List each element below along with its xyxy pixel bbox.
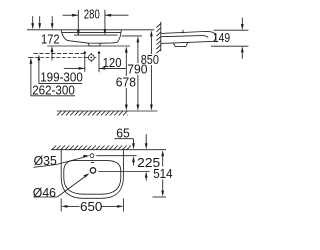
- wire tap centerline extension: [96, 155, 136, 157]
- wire rim top line: [27, 29, 154, 31]
- wall hatching: [52, 146, 131, 150]
- svg-text:514: 514: [153, 167, 172, 181]
- dimension 172 arrows: [51, 16, 54, 60]
- label Ø35 leader: [34, 156, 88, 167]
- dimension 514: [153, 150, 167, 197]
- wire fixing hole extension left: [84, 55, 86, 72]
- basin top-view outer outline: [61, 150, 123, 199]
- node supply hole circle: [88, 55, 94, 61]
- side drain tab: [173, 43, 187, 47]
- dimension 650: [61, 199, 123, 212]
- wire inner-rim right extension: [122, 35, 142, 37]
- wall line vertical: [160, 22, 162, 52]
- node fixing-hole centerline (dash): [34, 52, 85, 54]
- svg-text:Ø46: Ø46: [33, 186, 56, 200]
- wire drain centerline extension: [98, 171, 150, 173]
- basin inner rim line: [62, 31, 121, 33]
- node tap hole (top view): [90, 154, 94, 158]
- svg-text:850: 850: [141, 53, 159, 67]
- svg-text:650: 650: [80, 200, 102, 214]
- node fixing hole marker right (diamond): [98, 51, 101, 55]
- dimension 850: [150, 30, 153, 111]
- ground floor hatching: [57, 111, 128, 115]
- dimension 149: [211, 18, 249, 59]
- svg-text:262-300: 262-300: [32, 83, 75, 97]
- basin side inner rim line: [161, 36, 208, 38]
- wall line horizontal: [51, 149, 166, 151]
- basin front outline: [61, 30, 121, 43]
- label 262-300 leader: [31, 95, 76, 97]
- node center mark dash: [91, 161, 94, 163]
- wall hatching: [156, 24, 160, 54]
- svg-text:Ø35: Ø35: [34, 154, 57, 168]
- basin drain tab: [88, 43, 100, 46]
- node drain hole ring: [90, 168, 95, 173]
- svg-text:172: 172: [41, 32, 60, 46]
- dimension 280: [63, 10, 129, 37]
- dimension 678: [125, 46, 128, 110]
- dimension 120: [64, 67, 126, 70]
- ground floor line: [57, 110, 158, 112]
- label 199-300 leader: [39, 83, 83, 85]
- basin top-view inner bowl: [64, 161, 121, 195]
- node tap hole tick: [182, 30, 184, 34]
- wire fixing hole extension right: [98, 55, 100, 72]
- node fixing hole marker left (diamond): [83, 51, 86, 55]
- svg-text:65: 65: [116, 127, 130, 141]
- dimension 790: [137, 36, 140, 111]
- dimension 262-300 top arrow: [30, 16, 35, 96]
- dimension 225: [145, 134, 148, 180]
- dimension 199-300 top arrow: [38, 16, 42, 83]
- dimension 65: [114, 139, 135, 166]
- svg-text:120: 120: [103, 56, 122, 70]
- basin side profile: [161, 31, 215, 43]
- node supply centerline (dash): [28, 57, 33, 59]
- svg-text:280: 280: [84, 7, 100, 21]
- label Ø46 leader: [34, 196, 58, 198]
- svg-text:678: 678: [116, 76, 136, 90]
- wire tab-bottom extension line: [47, 45, 130, 47]
- svg-text:149: 149: [213, 31, 230, 45]
